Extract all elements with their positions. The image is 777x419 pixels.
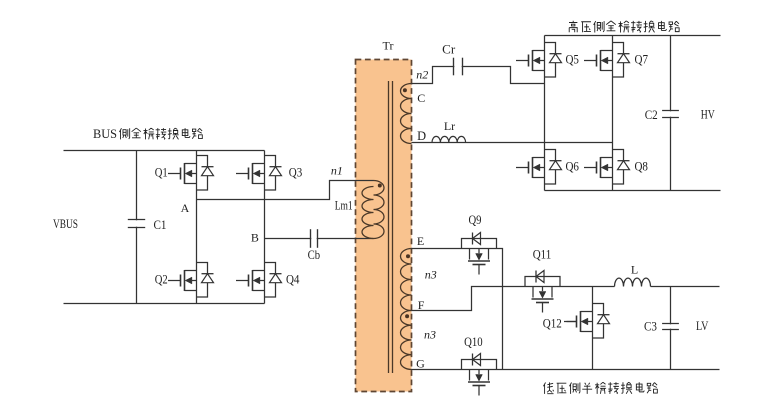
inductor Lr bbox=[432, 136, 466, 142]
label: LV side half-bridge circuit (Chinese) bbox=[543, 382, 657, 394]
svg-text:n3: n3 bbox=[425, 267, 437, 281]
svg-text:B: B bbox=[251, 231, 259, 245]
capacitor C3 plates bbox=[662, 324, 679, 330]
wire: node D through Lr to HV right leg midpoint bbox=[412, 142, 613, 144]
svg-text:Cb: Cb bbox=[308, 248, 321, 262]
winding n3 upper bbox=[401, 249, 412, 311]
wire: node F jog up to output wire bbox=[412, 287, 615, 311]
wire: output wire after L bbox=[651, 286, 720, 288]
transistor Q11 bbox=[525, 271, 560, 313]
svg-text:Lm1: Lm1 bbox=[335, 199, 353, 213]
svg-text:HV: HV bbox=[701, 108, 715, 122]
svg-text:BUS: BUS bbox=[93, 127, 117, 141]
svg-text:Q4: Q4 bbox=[286, 273, 300, 287]
winding n1 (Lm1) bbox=[362, 181, 384, 239]
inductor L bbox=[615, 278, 651, 286]
svg-text:Q6: Q6 bbox=[565, 159, 579, 173]
svg-text:C1: C1 bbox=[154, 218, 167, 232]
svg-text:L: L bbox=[631, 262, 638, 276]
wire: right leg Q3/Q4 bbox=[264, 151, 266, 304]
wire: Q12 leg bbox=[592, 287, 594, 370]
wire: HV top rail bbox=[545, 35, 721, 37]
node B wire bbox=[265, 238, 374, 240]
svg-text:F: F bbox=[418, 298, 425, 312]
transformer region box Tr bbox=[356, 60, 412, 392]
transistor Q7 bbox=[584, 43, 630, 78]
wire: C3 column bbox=[670, 287, 672, 370]
svg-text:Cr: Cr bbox=[442, 43, 456, 57]
svg-text:Q8: Q8 bbox=[634, 159, 648, 173]
svg-text:G: G bbox=[416, 357, 425, 371]
svg-text:Q11: Q11 bbox=[533, 248, 552, 262]
wire: Q12 gate lead bbox=[567, 321, 578, 323]
transistor Q12 bbox=[564, 304, 610, 339]
wire: n2 top through Cr to HV left leg midpoint bbox=[412, 67, 545, 84]
svg-text:Q7: Q7 bbox=[635, 53, 649, 67]
capacitor Cb plates bbox=[311, 229, 318, 248]
svg-text:A: A bbox=[181, 201, 190, 215]
polarity dot n1 bbox=[378, 184, 382, 188]
svg-text:Q12: Q12 bbox=[543, 316, 562, 330]
winding n3 lower bbox=[401, 311, 412, 370]
transformer core lines bbox=[388, 81, 390, 373]
svg-text:D: D bbox=[417, 129, 426, 143]
transistor Q4 bbox=[236, 263, 282, 298]
svg-text:Tr: Tr bbox=[383, 39, 394, 53]
polarity dot n3 upper bbox=[406, 254, 410, 258]
svg-text:C: C bbox=[417, 91, 425, 105]
svg-text:n3: n3 bbox=[424, 327, 436, 341]
label: BUS side full-bridge circuit (Chinese) bbox=[93, 127, 202, 141]
svg-text:C2: C2 bbox=[645, 108, 658, 122]
capacitor Cr plates bbox=[454, 58, 463, 76]
wire: C2 column bbox=[670, 36, 672, 191]
winding n2 bbox=[401, 84, 412, 144]
transistor Q10 bbox=[462, 354, 497, 396]
capacitor C2 plates bbox=[662, 111, 679, 118]
svg-text:VBUS: VBUS bbox=[53, 217, 78, 231]
polarity dot n2 bbox=[403, 88, 407, 92]
node A wire bbox=[197, 181, 374, 200]
svg-text:Q3: Q3 bbox=[289, 166, 303, 180]
svg-text:Q1: Q1 bbox=[155, 166, 168, 180]
transistor Q3 bbox=[236, 156, 282, 191]
label: HV side full-bridge circuit (Chinese) bbox=[569, 21, 679, 33]
wire: left leg Q1/Q2 bbox=[196, 151, 198, 304]
wire: HV bottom rail bbox=[545, 190, 721, 192]
capacitor C1 plates bbox=[128, 220, 145, 228]
polarity dot n3 lower bbox=[405, 314, 409, 318]
transistor Q8 bbox=[584, 150, 630, 185]
svg-text:Q2: Q2 bbox=[155, 273, 168, 287]
svg-text:C3: C3 bbox=[644, 319, 657, 333]
svg-text:Q5: Q5 bbox=[565, 53, 579, 67]
svg-text:n1: n1 bbox=[331, 164, 343, 178]
transistor Q1 bbox=[168, 156, 214, 191]
transistor Q6 bbox=[516, 150, 562, 185]
wire: BUS bottom rail bbox=[64, 303, 265, 305]
wire: BUS top rail bbox=[64, 150, 265, 152]
svg-text:Q10: Q10 bbox=[464, 335, 483, 349]
svg-text:LV: LV bbox=[696, 319, 709, 333]
svg-text:Q9: Q9 bbox=[469, 213, 482, 227]
svg-text:Lr: Lr bbox=[444, 119, 455, 133]
svg-text:E: E bbox=[417, 234, 424, 248]
transistor Q2 bbox=[168, 263, 214, 298]
wire: HV right leg bbox=[612, 36, 614, 191]
svg-text:n2: n2 bbox=[416, 68, 428, 82]
transistor Q5 bbox=[516, 43, 562, 78]
wire: C1 column bbox=[136, 151, 138, 304]
transistor Q9 bbox=[462, 233, 497, 275]
wire: LV bottom rail from G bbox=[412, 369, 720, 371]
wire: node E rail to LV minus bbox=[412, 249, 503, 370]
wire: HV left leg bbox=[544, 36, 546, 191]
